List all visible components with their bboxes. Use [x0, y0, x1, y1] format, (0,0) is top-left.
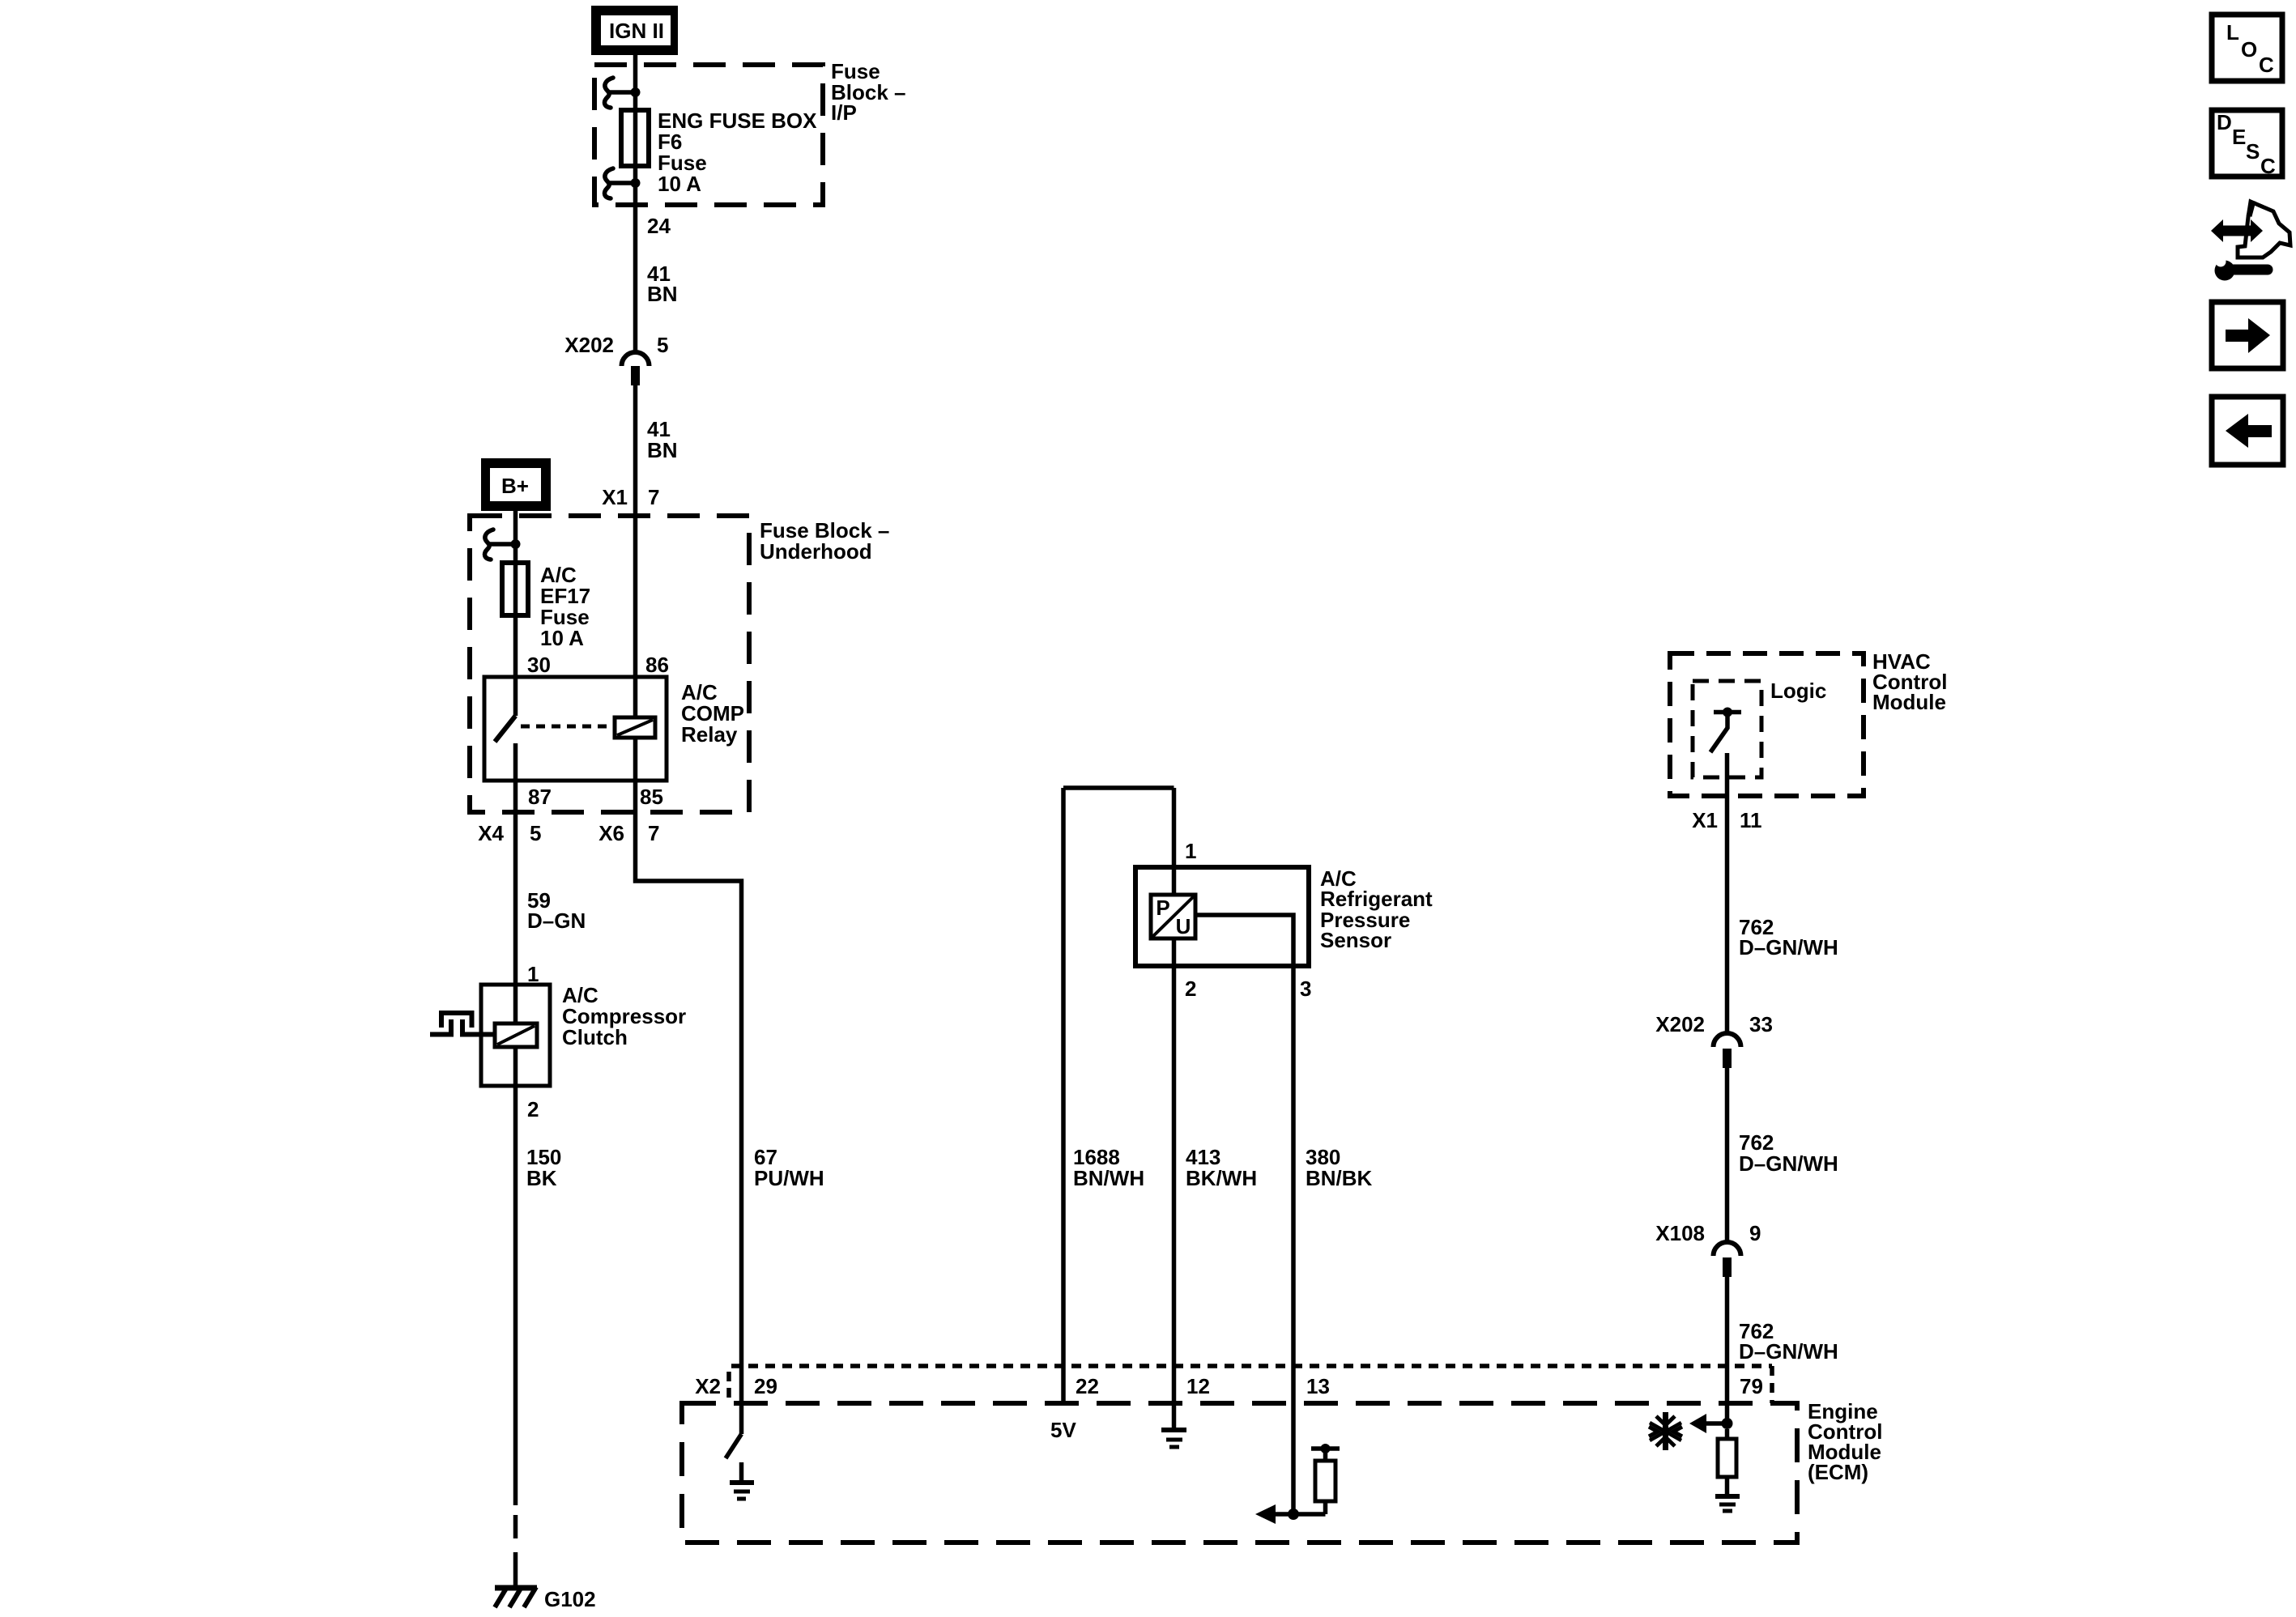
- ECM pin 79 pull-down resistor: [1718, 1429, 1736, 1496]
- label ENG FUSE BOX F6 Fuse 10 A: [658, 109, 817, 196]
- svg-text:22: 22: [1076, 1374, 1099, 1398]
- icon LOC box: [2212, 15, 2282, 81]
- svg-text:13: 13: [1306, 1374, 1330, 1398]
- svg-text:29: 29: [754, 1374, 777, 1398]
- Engine Control Module dashed box: [682, 1403, 1797, 1543]
- wire sensor pin 2 down (413 BK/WH): [1172, 938, 1177, 1403]
- connector X4 pin 5 labels: [478, 821, 541, 845]
- svg-text:D–GN/WH: D–GN/WH: [1739, 1151, 1838, 1176]
- clutch mechanical symbol: [430, 1013, 495, 1037]
- HVAC control module dashed box: [1670, 653, 1864, 796]
- svg-text:Underhood: Underhood: [760, 539, 872, 564]
- ground G102: [495, 1587, 596, 1611]
- ECM pin 29 ground: [730, 1462, 754, 1499]
- Fuse Block - I/P dashed box: [594, 65, 823, 205]
- wire 41 BN from X202 to relay coil pin 86: [633, 385, 638, 717]
- svg-text:G102: G102: [544, 1587, 596, 1611]
- svg-text:2: 2: [1185, 977, 1196, 1001]
- svg-text:5V: 5V: [1050, 1418, 1076, 1442]
- wire label 150 BK: [526, 1145, 561, 1190]
- A/C refrigerant pressure sensor box: [1135, 867, 1309, 966]
- wire 762 D-GN/WH lower: [1725, 1277, 1730, 1423]
- wire 41 BN from IGN II to connector X202: [633, 55, 638, 351]
- wire label 380 BN/BK: [1306, 1145, 1373, 1190]
- svg-text:I/P: I/P: [831, 100, 857, 125]
- svg-text:D–GN/WH: D–GN/WH: [1739, 1339, 1838, 1364]
- svg-text:7: 7: [648, 821, 659, 845]
- wire label 59 D-GN: [527, 888, 586, 933]
- svg-text:X202: X202: [1655, 1012, 1705, 1036]
- wire from B+ to relay pin 30: [513, 504, 518, 716]
- wire 762 D-GN/WH from HVAC: [1725, 753, 1730, 1032]
- wire relay pin 85 down and over (67 PU/WH): [636, 738, 742, 1434]
- connector X202 pin 5 labels: [564, 333, 668, 357]
- svg-text:Sensor: Sensor: [1320, 928, 1391, 952]
- svg-text:BK/WH: BK/WH: [1186, 1166, 1257, 1190]
- in-line connector X108 symbol: [1714, 1242, 1741, 1277]
- svg-text:O: O: [2241, 37, 2257, 62]
- svg-text:87: 87: [528, 785, 552, 809]
- wire top jog to sensor pin 1: [1063, 785, 1174, 790]
- connector X1 pin 11 labels (HVAC): [1692, 808, 1761, 832]
- svg-text:X1: X1: [602, 485, 628, 509]
- svg-text:D: D: [2217, 110, 2232, 134]
- svg-text:9: 9: [1749, 1221, 1761, 1245]
- ECM pin 79 arrow to A/C request: [1689, 1414, 1727, 1433]
- svg-text:L: L: [2226, 20, 2239, 45]
- label A/C Refrigerant Pressure Sensor: [1320, 866, 1433, 952]
- logic dashed box: [1693, 681, 1761, 777]
- svg-text:11: 11: [1740, 808, 1762, 832]
- svg-text:30: 30: [527, 653, 551, 677]
- wire label 762 D-GN/WH (1): [1739, 915, 1838, 960]
- svg-text:B+: B+: [501, 474, 529, 498]
- svg-text:85: 85: [640, 785, 663, 809]
- svg-text:24: 24: [647, 214, 671, 238]
- svg-text:86: 86: [645, 653, 669, 677]
- clutch coil: [495, 1023, 537, 1047]
- wire 1688 BN/WH vertical: [1061, 788, 1066, 1403]
- svg-text:X202: X202: [564, 333, 614, 357]
- wire relay pin 87 down: [513, 743, 518, 1023]
- svg-text:X108: X108: [1655, 1221, 1705, 1245]
- fuse F6 ENG FUSE BOX: [621, 110, 649, 166]
- ECM pin 12 ground: [1161, 1403, 1186, 1447]
- label Engine Control Module (ECM): [1808, 1399, 1882, 1484]
- svg-text:S: S: [2246, 139, 2260, 164]
- wire 762 D-GN/WH middle: [1725, 1068, 1730, 1241]
- wire label 762 D-GN/WH (2): [1739, 1130, 1838, 1176]
- svg-text:12: 12: [1186, 1374, 1210, 1398]
- svg-text:X4: X4: [478, 821, 504, 845]
- svg-text:Logic: Logic: [1770, 679, 1826, 703]
- icon forward arrow box: [2212, 302, 2283, 368]
- ECM pin 79 ground: [1715, 1496, 1740, 1511]
- A/C compressor clutch box: [481, 985, 550, 1086]
- connector X1 pin 7 labels: [602, 485, 659, 509]
- svg-text:BK: BK: [526, 1166, 557, 1190]
- svg-text:BN/WH: BN/WH: [1073, 1166, 1144, 1190]
- svg-text:Relay: Relay: [681, 722, 738, 747]
- ECM pin 13 pull-up resistor branch: [1293, 1444, 1340, 1514]
- svg-text:(ECM): (ECM): [1808, 1460, 1868, 1484]
- wire label 1688 BN/WH: [1073, 1145, 1144, 1190]
- sensor P/U transducer symbol: [1151, 895, 1195, 938]
- wire label 413 BK/WH: [1186, 1145, 1257, 1190]
- svg-text:5: 5: [530, 821, 541, 845]
- svg-text:7: 7: [648, 485, 659, 509]
- icon DESC box: [2212, 110, 2282, 178]
- wire label 67 PU/WH: [754, 1145, 824, 1190]
- svg-text:BN: BN: [647, 438, 678, 462]
- svg-text:D–GN/WH: D–GN/WH: [1739, 935, 1838, 960]
- ECM X2 connector dotted line: [731, 1364, 1772, 1368]
- svg-text:D–GN: D–GN: [527, 908, 586, 933]
- svg-text:10 A: 10 A: [658, 172, 701, 196]
- wire sensor pin 1 down: [1172, 788, 1177, 895]
- in-line connector X202 symbol (right): [1714, 1033, 1741, 1068]
- svg-text:1: 1: [1185, 839, 1196, 863]
- svg-text:X6: X6: [598, 821, 624, 845]
- relay A/C COMP box: [484, 677, 667, 781]
- power symbol B+: [481, 458, 551, 511]
- label HVAC Control Module: [1872, 649, 1947, 714]
- logic switch: [1710, 708, 1741, 753]
- svg-text:5: 5: [657, 333, 668, 357]
- wire label 41 BN: [647, 262, 678, 306]
- fuse cavity terminal EF17: [485, 530, 521, 560]
- label Fuse Block - Underhood: [760, 518, 889, 564]
- connector X202 pin 33 labels: [1655, 1012, 1773, 1036]
- svg-text:2: 2: [527, 1097, 539, 1121]
- svg-text:E: E: [2232, 125, 2246, 149]
- relay coil: [615, 717, 655, 738]
- svg-text:PU/WH: PU/WH: [754, 1166, 824, 1190]
- power symbol IGN II: [591, 6, 678, 55]
- wire 150 BK solid part: [513, 1047, 518, 1505]
- wire label 762 D-GN/WH (3): [1739, 1319, 1838, 1364]
- svg-text:BN: BN: [647, 282, 678, 306]
- fuse cavity terminal top: [605, 78, 641, 108]
- label A/C EF17 Fuse 10 A: [540, 563, 590, 650]
- snowflake symbol: [1649, 1412, 1682, 1450]
- wire sensor pin 3 (380 BN/BK): [1195, 915, 1293, 1514]
- X2 label separator dotted: [726, 1372, 731, 1398]
- connector X6 pin 7 labels: [598, 821, 659, 845]
- svg-text:P: P: [1156, 896, 1169, 920]
- svg-text:BN/BK: BN/BK: [1306, 1166, 1373, 1190]
- label A/C COMP Relay: [681, 680, 744, 747]
- svg-text:U: U: [1176, 914, 1191, 938]
- svg-text:Module: Module: [1872, 690, 1946, 714]
- relay switch blade: [495, 716, 516, 742]
- wire 150 BK dashed part: [513, 1515, 518, 1577]
- label Fuse Block - I/P: [831, 59, 906, 125]
- svg-text:79: 79: [1740, 1374, 1763, 1398]
- ECM X2 dotted jog down: [1770, 1366, 1774, 1403]
- ECM pin 13 arrow to other circuit: [1255, 1504, 1293, 1524]
- relay actuating dashed link: [521, 725, 613, 729]
- ECM pin 79 node dot: [1722, 1418, 1733, 1429]
- label A/C Compressor Clutch: [562, 983, 686, 1049]
- connector X108 pin 9 labels: [1655, 1221, 1761, 1245]
- svg-text:3: 3: [1300, 977, 1311, 1001]
- icon fastener/tool: [2211, 201, 2290, 281]
- fuse EF17: [502, 563, 528, 615]
- svg-text:X1: X1: [1692, 808, 1718, 832]
- svg-text:10 A: 10 A: [540, 626, 584, 650]
- wire label 41 BN (second): [647, 417, 678, 462]
- in-line connector X202 symbol: [622, 352, 650, 385]
- svg-text:C: C: [2259, 53, 2274, 77]
- icon back arrow box: [2212, 397, 2283, 465]
- svg-text:IGN II: IGN II: [609, 19, 664, 43]
- Fuse Block - Underhood dashed box: [470, 516, 749, 812]
- svg-text:X2: X2: [695, 1374, 721, 1398]
- fuse cavity terminal bottom: [605, 168, 641, 198]
- svg-text:Clutch: Clutch: [562, 1025, 628, 1049]
- svg-text:33: 33: [1749, 1012, 1773, 1036]
- ECM pin 29 switch blade: [726, 1434, 742, 1458]
- ECM pin 13 node dot: [1288, 1508, 1299, 1520]
- svg-text:C: C: [2260, 154, 2276, 178]
